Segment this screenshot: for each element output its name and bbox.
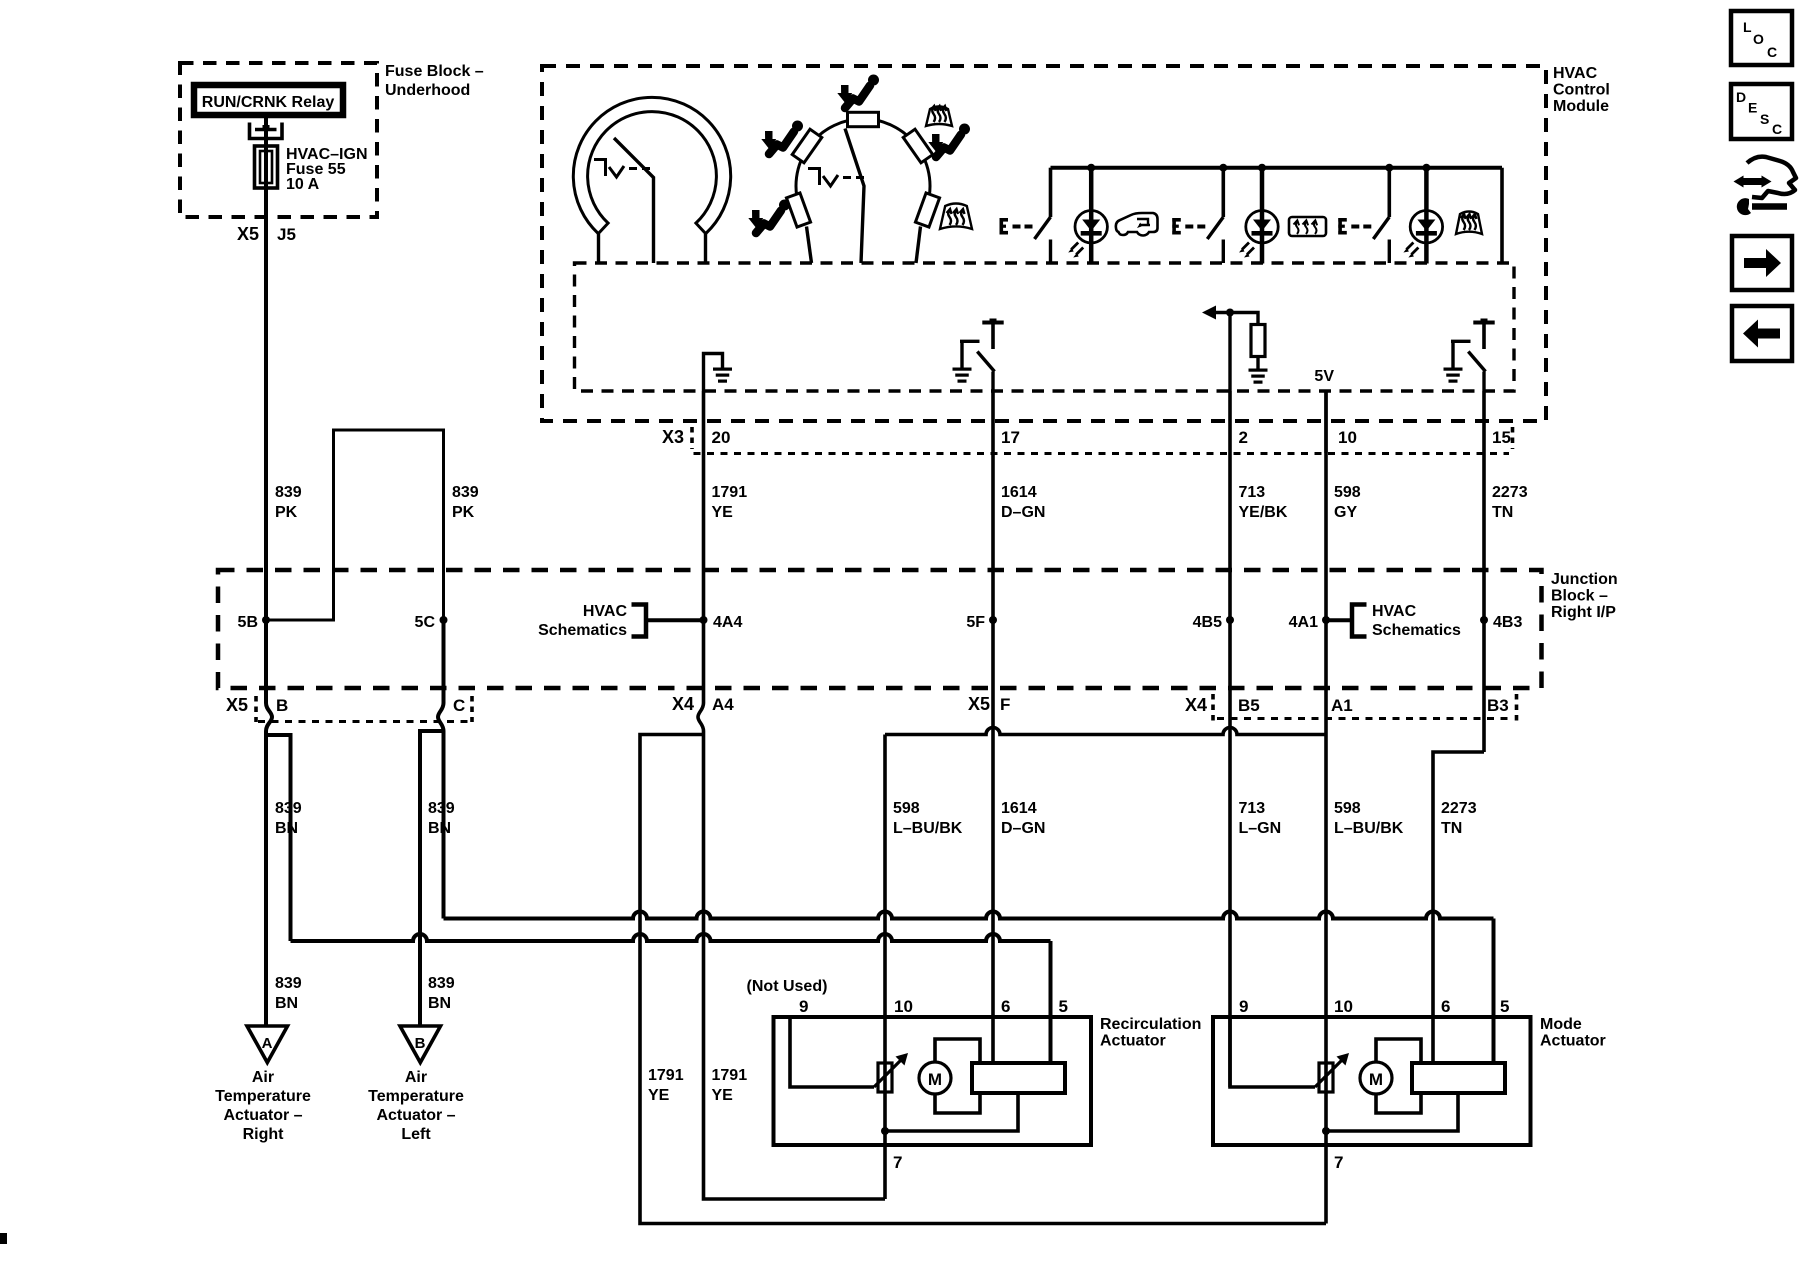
node 4A4	[700, 616, 708, 624]
svg-text:Module: Module	[1553, 98, 1609, 115]
fuse HVAC-IGN Fuse 55 10A	[255, 146, 278, 188]
svg-text:X5: X5	[226, 695, 248, 715]
svg-text:6: 6	[1001, 997, 1010, 1016]
pot wiper	[614, 138, 654, 263]
svg-text:Air: Air	[252, 1069, 274, 1086]
mode switch legs	[807, 227, 812, 264]
wire 598 pin10/A1 down to mode pin 10	[1324, 391, 1328, 1131]
Fuse Block - Underhood dashed box	[180, 63, 377, 217]
svg-text:Junction: Junction	[1551, 571, 1618, 588]
recirculation actuator box	[774, 1017, 1092, 1145]
svg-text:Temperature: Temperature	[368, 1088, 464, 1105]
svg-text:A: A	[262, 1035, 273, 1052]
icon defrost (lower-right)	[940, 204, 972, 230]
svg-text:15: 15	[1492, 428, 1511, 447]
svg-text:7: 7	[1334, 1153, 1343, 1172]
mode switch wiper	[845, 129, 864, 264]
mode contact upper-right	[903, 129, 933, 163]
svg-text:C: C	[1772, 121, 1782, 137]
svg-text:1614: 1614	[1001, 800, 1037, 817]
pot signal glyph	[594, 160, 606, 177]
svg-text:O: O	[1753, 31, 1764, 47]
svg-text:839: 839	[275, 975, 302, 992]
svg-text:10 A: 10 A	[286, 176, 320, 193]
mode actuator potentiometer	[1319, 1063, 1333, 1092]
svg-text:2273: 2273	[1492, 484, 1528, 501]
svg-text:2273: 2273	[1441, 800, 1477, 817]
svg-text:Block –: Block –	[1551, 588, 1608, 605]
svg-text:YE: YE	[712, 504, 734, 521]
svg-text:4A4: 4A4	[713, 614, 742, 631]
svg-text:S: S	[1760, 111, 1769, 127]
signal arrow + resistor (pin 2 internal)	[1215, 313, 1258, 392]
switch (recirc indicator)	[1049, 168, 1053, 217]
svg-text:1614: 1614	[1001, 484, 1037, 501]
Junction Block - Right I/P dashed box	[218, 570, 1542, 688]
nav icon next (right arrow)	[1732, 236, 1792, 290]
recirculation actuator motor M	[919, 1062, 951, 1094]
svg-text:1791: 1791	[712, 484, 748, 501]
icon defrost+seat (upper-right)	[926, 106, 952, 126]
svg-text:1791: 1791	[712, 1067, 748, 1084]
HVAC Schematics reference (right)	[1326, 618, 1352, 622]
svg-text:839: 839	[452, 484, 479, 501]
svg-text:Actuator –: Actuator –	[376, 1107, 455, 1124]
mode selector switch arc	[796, 119, 930, 207]
svg-text:Schematics: Schematics	[1372, 622, 1461, 639]
svg-text:M: M	[928, 1070, 942, 1089]
svg-text:4B3: 4B3	[1493, 614, 1522, 631]
svg-text:L: L	[1743, 19, 1752, 35]
svg-text:598: 598	[1334, 484, 1361, 501]
svg-text:D: D	[1736, 89, 1746, 105]
svg-text:5: 5	[1500, 997, 1509, 1016]
svg-text:839: 839	[275, 484, 302, 501]
wire 839 PK 5C to C connector	[438, 620, 444, 731]
svg-text:839: 839	[428, 800, 455, 817]
svg-text:PK: PK	[275, 504, 298, 521]
wire 713 pin2 to B5 to mode pin 9	[1228, 391, 1232, 1087]
ground (pin 20 internal)	[704, 354, 723, 392]
svg-text:X4: X4	[1185, 695, 1207, 715]
mode actuator pin 7 stub	[1324, 1131, 1328, 1224]
svg-text:Air: Air	[405, 1069, 427, 1086]
svg-text:C: C	[453, 696, 465, 715]
wire 1791 YE A4 branch left	[640, 735, 1326, 1224]
svg-text:A4: A4	[712, 695, 734, 714]
svg-text:L–BU/BK: L–BU/BK	[893, 820, 963, 837]
svg-text:Right: Right	[243, 1126, 285, 1143]
bus junction dots	[1087, 164, 1095, 172]
relay RUN/CRNK Relay	[194, 85, 343, 115]
svg-text:YE: YE	[712, 1087, 734, 1104]
indicator bus	[1051, 166, 1503, 170]
bus right drop	[1500, 168, 1504, 264]
mode contact top	[848, 112, 879, 126]
wire bus1 corner down to Mode pin 5	[1492, 919, 1496, 1064]
svg-text:5: 5	[1059, 997, 1068, 1016]
potentiometer (temp knob) horseshoe	[573, 97, 730, 233]
wire bus2 corner down to Recirc pin 5	[1049, 941, 1053, 1063]
svg-text:17: 17	[1001, 428, 1020, 447]
svg-text:10: 10	[1338, 428, 1357, 447]
svg-text:(Not Used): (Not Used)	[747, 978, 828, 995]
node 4B3	[1480, 616, 1488, 624]
svg-text:Fuse Block –: Fuse Block –	[385, 63, 484, 80]
icon seat (upper-left, vent)	[761, 121, 803, 155]
svg-text:BN: BN	[428, 820, 451, 837]
svg-text:HVAC: HVAC	[583, 603, 628, 620]
wire relay to fuse	[264, 115, 268, 190]
svg-text:Right I/P: Right I/P	[1551, 604, 1616, 621]
svg-text:9: 9	[1239, 997, 1248, 1016]
connector triangle B	[400, 1026, 441, 1063]
svg-text:839: 839	[275, 800, 302, 817]
svg-text:F: F	[1000, 695, 1010, 714]
LED rear defog indicator	[1260, 168, 1265, 264]
module inner logic dashed box	[575, 263, 1515, 391]
recirculation actuator pin 9 internal stub	[790, 1017, 874, 1087]
relay pin bracket	[250, 123, 283, 139]
svg-text:6: 6	[1441, 997, 1450, 1016]
wire 598 A1 branch horizontal	[885, 728, 1326, 735]
svg-text:L–GN: L–GN	[1239, 820, 1282, 837]
svg-text:PK: PK	[452, 504, 475, 521]
wire 839 BN C main to bus1	[442, 731, 446, 919]
page edge artifact	[0, 1233, 7, 1244]
svg-text:D–GN: D–GN	[1001, 820, 1045, 837]
svg-text:B3: B3	[1487, 696, 1509, 715]
svg-text:839: 839	[428, 975, 455, 992]
resistor (pin 2)	[1251, 325, 1265, 357]
svg-text:5V: 5V	[1314, 368, 1334, 385]
mode actuator pot wiper arrow	[1315, 1059, 1343, 1087]
switch (rear defog indicator)	[1222, 168, 1226, 217]
wire 839 BN C branch to triangle B	[420, 731, 444, 1026]
svg-text:5C: 5C	[415, 614, 436, 631]
recirculation actuator feedback bar	[972, 1063, 1065, 1093]
nav icon DESC	[1731, 84, 1792, 139]
svg-text:HVAC: HVAC	[1553, 65, 1598, 82]
recirculation actuator pin 7 stub	[883, 1131, 887, 1199]
svg-text:X4: X4	[672, 694, 694, 714]
svg-text:713: 713	[1239, 484, 1266, 501]
mode contact upper-left	[792, 129, 822, 163]
icon windshield defog	[1456, 212, 1482, 235]
svg-text:Temperature: Temperature	[215, 1088, 311, 1105]
svg-text:10: 10	[1334, 997, 1353, 1016]
nav icon LOC	[1731, 11, 1792, 65]
svg-text:20: 20	[712, 428, 731, 447]
svg-text:B: B	[276, 696, 288, 715]
svg-text:Recirculation: Recirculation	[1100, 1016, 1201, 1033]
mode contact lower-right	[915, 193, 939, 227]
svg-text:Control: Control	[1553, 82, 1610, 99]
svg-text:M: M	[1369, 1070, 1383, 1089]
mode actuator feedback bar	[1412, 1063, 1505, 1093]
svg-text:713: 713	[1239, 800, 1266, 817]
svg-text:2: 2	[1239, 428, 1248, 447]
icon car recirculation	[1116, 213, 1158, 236]
svg-text:TN: TN	[1492, 504, 1513, 521]
mode signal glyph	[808, 169, 820, 186]
recirculation actuator motor loop	[935, 1039, 980, 1113]
mode actuator motor M	[1360, 1062, 1392, 1094]
svg-text:C: C	[1767, 44, 1777, 60]
recirculation actuator pot wiper arrow	[874, 1059, 902, 1087]
switch (front defog indicator)	[1388, 168, 1392, 217]
svg-text:J5: J5	[277, 225, 296, 244]
svg-text:598: 598	[1334, 800, 1361, 817]
node 4B5	[1226, 616, 1234, 624]
mode actuator pin 9 internal stub	[1230, 1017, 1315, 1087]
mode actuator box	[1213, 1017, 1531, 1145]
svg-text:Actuator: Actuator	[1100, 1033, 1166, 1050]
svg-text:GY: GY	[1334, 504, 1357, 521]
svg-text:5F: 5F	[966, 614, 985, 631]
icon seat (top, mode full)	[837, 75, 879, 109]
svg-text:4A1: 4A1	[1289, 614, 1318, 631]
svg-text:X3: X3	[662, 427, 684, 447]
wire 1791 YE pin20 to A4	[698, 391, 704, 731]
svg-text:Actuator –: Actuator –	[223, 1107, 302, 1124]
svg-text:1791: 1791	[648, 1067, 684, 1084]
svg-text:X5: X5	[968, 694, 990, 714]
wire 839 BN B branch to bus2	[266, 735, 291, 941]
svg-text:B: B	[415, 1035, 426, 1052]
svg-text:B5: B5	[1238, 696, 1260, 715]
nav icon back (left arrow)	[1732, 306, 1792, 361]
nav icon arrows+wrench	[1734, 157, 1797, 216]
LED recirc indicator	[1089, 168, 1094, 264]
svg-text:A1: A1	[1331, 696, 1353, 715]
svg-text:HVAC: HVAC	[1372, 603, 1417, 620]
switch (pin 15 internal)	[1473, 321, 1494, 325]
svg-text:Mode: Mode	[1540, 1016, 1582, 1033]
svg-text:D–GN: D–GN	[1001, 504, 1045, 521]
icon seat (lower-left, floor)	[748, 200, 790, 234]
wire 2273 TN B3 step to mode pin 6	[1433, 752, 1484, 1063]
node 4A1	[1322, 616, 1330, 624]
svg-text:BN: BN	[275, 995, 298, 1012]
svg-text:4B5: 4B5	[1193, 614, 1222, 631]
svg-text:RUN/CRNK Relay: RUN/CRNK Relay	[202, 94, 335, 111]
svg-text:10: 10	[894, 997, 913, 1016]
svg-text:X5: X5	[237, 224, 259, 244]
wire 2273 TN pin15 to B3	[1482, 391, 1486, 752]
recirculation actuator bar to pin7 wire	[885, 1093, 1018, 1131]
LED front defog indicator	[1424, 168, 1429, 264]
recirculation actuator potentiometer	[878, 1063, 892, 1092]
HVAC Control Module dashed box	[542, 66, 1546, 421]
node 5C	[440, 616, 448, 624]
svg-text:5B: 5B	[238, 614, 258, 631]
mode actuator bar to pin7 wire	[1326, 1093, 1458, 1131]
node 5B	[262, 616, 270, 624]
mode contact lower-left	[786, 193, 810, 227]
svg-text:598: 598	[893, 800, 920, 817]
svg-text:Schematics: Schematics	[538, 622, 627, 639]
svg-text:7: 7	[893, 1153, 902, 1172]
svg-text:TN: TN	[1441, 820, 1462, 837]
icon rear defog grid	[1289, 217, 1326, 236]
wire 1614 D-GN pin17 to F to recirc pin 6	[991, 391, 995, 1063]
wire 839 BN bus2 (B to Recirc pin5)	[291, 934, 1051, 941]
node 5F	[989, 616, 997, 624]
svg-text:Left: Left	[401, 1126, 431, 1143]
svg-text:9: 9	[799, 997, 808, 1016]
svg-text:E: E	[1748, 100, 1757, 116]
svg-text:L–BU/BK: L–BU/BK	[1334, 820, 1404, 837]
wire loop 5B to 5C 839 PK	[266, 430, 444, 620]
svg-text:BN: BN	[428, 995, 451, 1012]
wire 1791 YE A4 main down	[704, 731, 886, 1199]
svg-text:BN: BN	[275, 820, 298, 837]
switch (pin 17 internal)	[982, 321, 1003, 325]
svg-text:YE/BK: YE/BK	[1239, 504, 1288, 521]
svg-text:Actuator: Actuator	[1540, 1033, 1606, 1050]
wire 839 BN bus1 (C to Mode pin5)	[444, 912, 1494, 919]
pot legs	[597, 234, 600, 263]
svg-text:YE: YE	[648, 1087, 670, 1104]
connector triangle A	[247, 1026, 288, 1063]
wire 839 PK J5 to 5B to triangle A	[266, 188, 272, 1026]
svg-text:Underhood: Underhood	[385, 82, 470, 99]
mode actuator motor loop	[1376, 1039, 1421, 1113]
